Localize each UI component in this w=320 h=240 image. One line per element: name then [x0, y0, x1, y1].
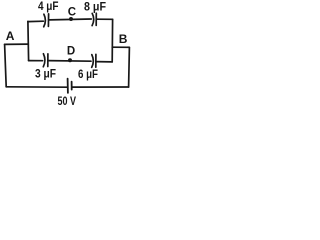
- node B lead wire: [112, 46, 129, 48]
- wire middle-left segment: [29, 60, 43, 62]
- wire top-right segment: [97, 18, 113, 20]
- svg-text:C: C: [68, 6, 76, 18]
- svg-text:6 μF: 6 μF: [78, 67, 98, 81]
- svg-text:A: A: [6, 29, 15, 43]
- wire middle-right segment: [97, 61, 113, 63]
- wire top-middle segment: [49, 18, 91, 21]
- svg-text:50 V: 50 V: [58, 94, 77, 108]
- wire top-left segment: [28, 20, 44, 22]
- node C: [69, 17, 73, 21]
- wire bottom-left segment: [6, 86, 67, 88]
- svg-text:4 μF: 4 μF: [38, 0, 59, 13]
- node D: [68, 58, 72, 62]
- capacitor C2 8uF: [92, 13, 96, 25]
- wire right outer edge: [128, 47, 131, 87]
- wire left rail: [27, 21, 30, 60]
- wire middle-middle segment: [49, 60, 91, 63]
- node A lead wire: [5, 43, 29, 45]
- capacitor C1 4uF: [44, 14, 49, 27]
- battery 50V: [68, 79, 72, 93]
- capacitor C3 3uF: [43, 54, 48, 67]
- wire right rail: [111, 19, 113, 62]
- capacitor C4 6uF: [92, 54, 96, 67]
- svg-text:3 μF: 3 μF: [35, 67, 56, 81]
- svg-text:D: D: [67, 45, 75, 57]
- wire left outer edge: [5, 44, 7, 86]
- svg-text:B: B: [119, 32, 128, 46]
- svg-text:8 μF: 8 μF: [84, 0, 106, 14]
- wire bottom-right segment: [73, 86, 129, 88]
